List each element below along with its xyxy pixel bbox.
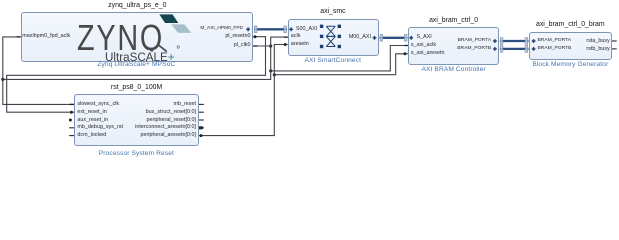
block axi_bram_ctrl_0_bram [529,32,612,60]
plus BRAM_PORTA (bram) [532,39,536,43]
zynq registered mark [177,46,179,48]
port marker circles [69,35,407,137]
junction dots [1,44,276,81]
port maxihpm0_fpd_aclk [22,34,70,39]
bus BRAM_PORTB [500,48,529,50]
marker smc aresetn [284,43,287,46]
stub dcm_locked [69,135,74,137]
port peripheral_reset [147,118,196,123]
stub rstb_busy [612,48,617,50]
port rsta_busy [586,39,609,44]
plain stubs [69,41,617,136]
wire peripheral_aresetn riser to smc aresetn [199,45,288,136]
stub rsta_busy [612,40,617,42]
bus pin glyphs [254,26,527,52]
marker pl_resetn0 [254,35,257,38]
plus BRAM_PORTB (ctrl) [493,47,497,51]
port s_axi_aresetn [411,51,445,56]
port rstb_busy [586,47,609,52]
zynq logo text [77,20,164,56]
wire clk branch to s_axi_aclk [271,46,408,71]
marker aux_reset_in [69,119,72,122]
marker ext_reset_in [70,111,73,114]
port S_AXI [417,35,432,40]
zynq logo flag light [171,24,191,33]
port BRAM_PORTB (bram) [538,47,572,52]
plus S_AXI [409,36,413,40]
port ext_reset_in [77,110,106,115]
wire pl_clk0 stub [253,45,271,47]
stub mb_reset [199,103,204,105]
wire pl_clk0 to maxihpm0_fpd_aclk and slowest_sync_clk [3,37,74,105]
plus BRAM_PORTA (ctrl) [493,39,497,43]
port slowest_sync_clk [77,102,119,107]
port M00_AXI [349,35,371,40]
block axi_smc [288,19,379,56]
port aclk [291,34,301,39]
stub bus_struct_reset [199,111,204,113]
port S00_AXI [296,27,317,32]
plus BRAM_PORTB (bram) [532,47,536,51]
port bus_struct_reset [146,110,196,115]
port s_axi_aclk [411,43,436,48]
plus M00_AXI [373,36,377,40]
port mb_reset [174,102,196,107]
plus S00_AXI [289,27,293,31]
port aux_reset_in [77,118,108,123]
stub peripheral_reset [199,119,204,121]
bus M_AXI_HPM0_FPD to S00_AXI [254,28,287,30]
port BRAM_PORTB [457,47,491,52]
port aresetn [291,42,309,47]
plus M_AXI_HPM0_FPD [246,27,250,31]
block zynq_ultra_ps_e_0 [21,12,253,62]
port interconnect_aresetn [135,125,196,130]
wire clk long horizontal to aclk [3,37,288,79]
zynq logo flag dark [159,14,178,23]
port dcm_locked [77,133,106,138]
wire pl_resetn0 to ext_reset_in [7,37,266,113]
bus BRAM_PORTA [500,40,529,42]
stub mb_debug_sys_rst [69,127,74,129]
block axi_bram_ctrl_0 [408,27,499,64]
marker interconnect_aresetn diamond [199,126,204,129]
port BRAM_PORTA (bram) [538,39,572,44]
dark port entry stubs [17,37,408,105]
port M_AXI_HPM0_FPD [200,27,243,32]
port BRAM_PORTA [458,39,492,44]
block rst_ps8_0_100M [74,94,199,146]
port peripheral_aresetn [141,133,196,138]
wire aresetn branch to s_axi_aresetn [274,54,408,75]
wire layer [0,0,619,162]
icon layer: plus icons and smc crossbar [0,0,619,162]
port mb_debug_sys_rst [77,125,123,130]
port pl_resetn0 [225,34,250,39]
marker peripheral_aresetn [200,134,203,137]
port pl_clk0 [234,43,251,48]
zynq Q tail stroke [158,45,167,52]
bus M00_AXI to S_AXI [380,37,408,39]
smc crossbar icon [320,25,341,49]
